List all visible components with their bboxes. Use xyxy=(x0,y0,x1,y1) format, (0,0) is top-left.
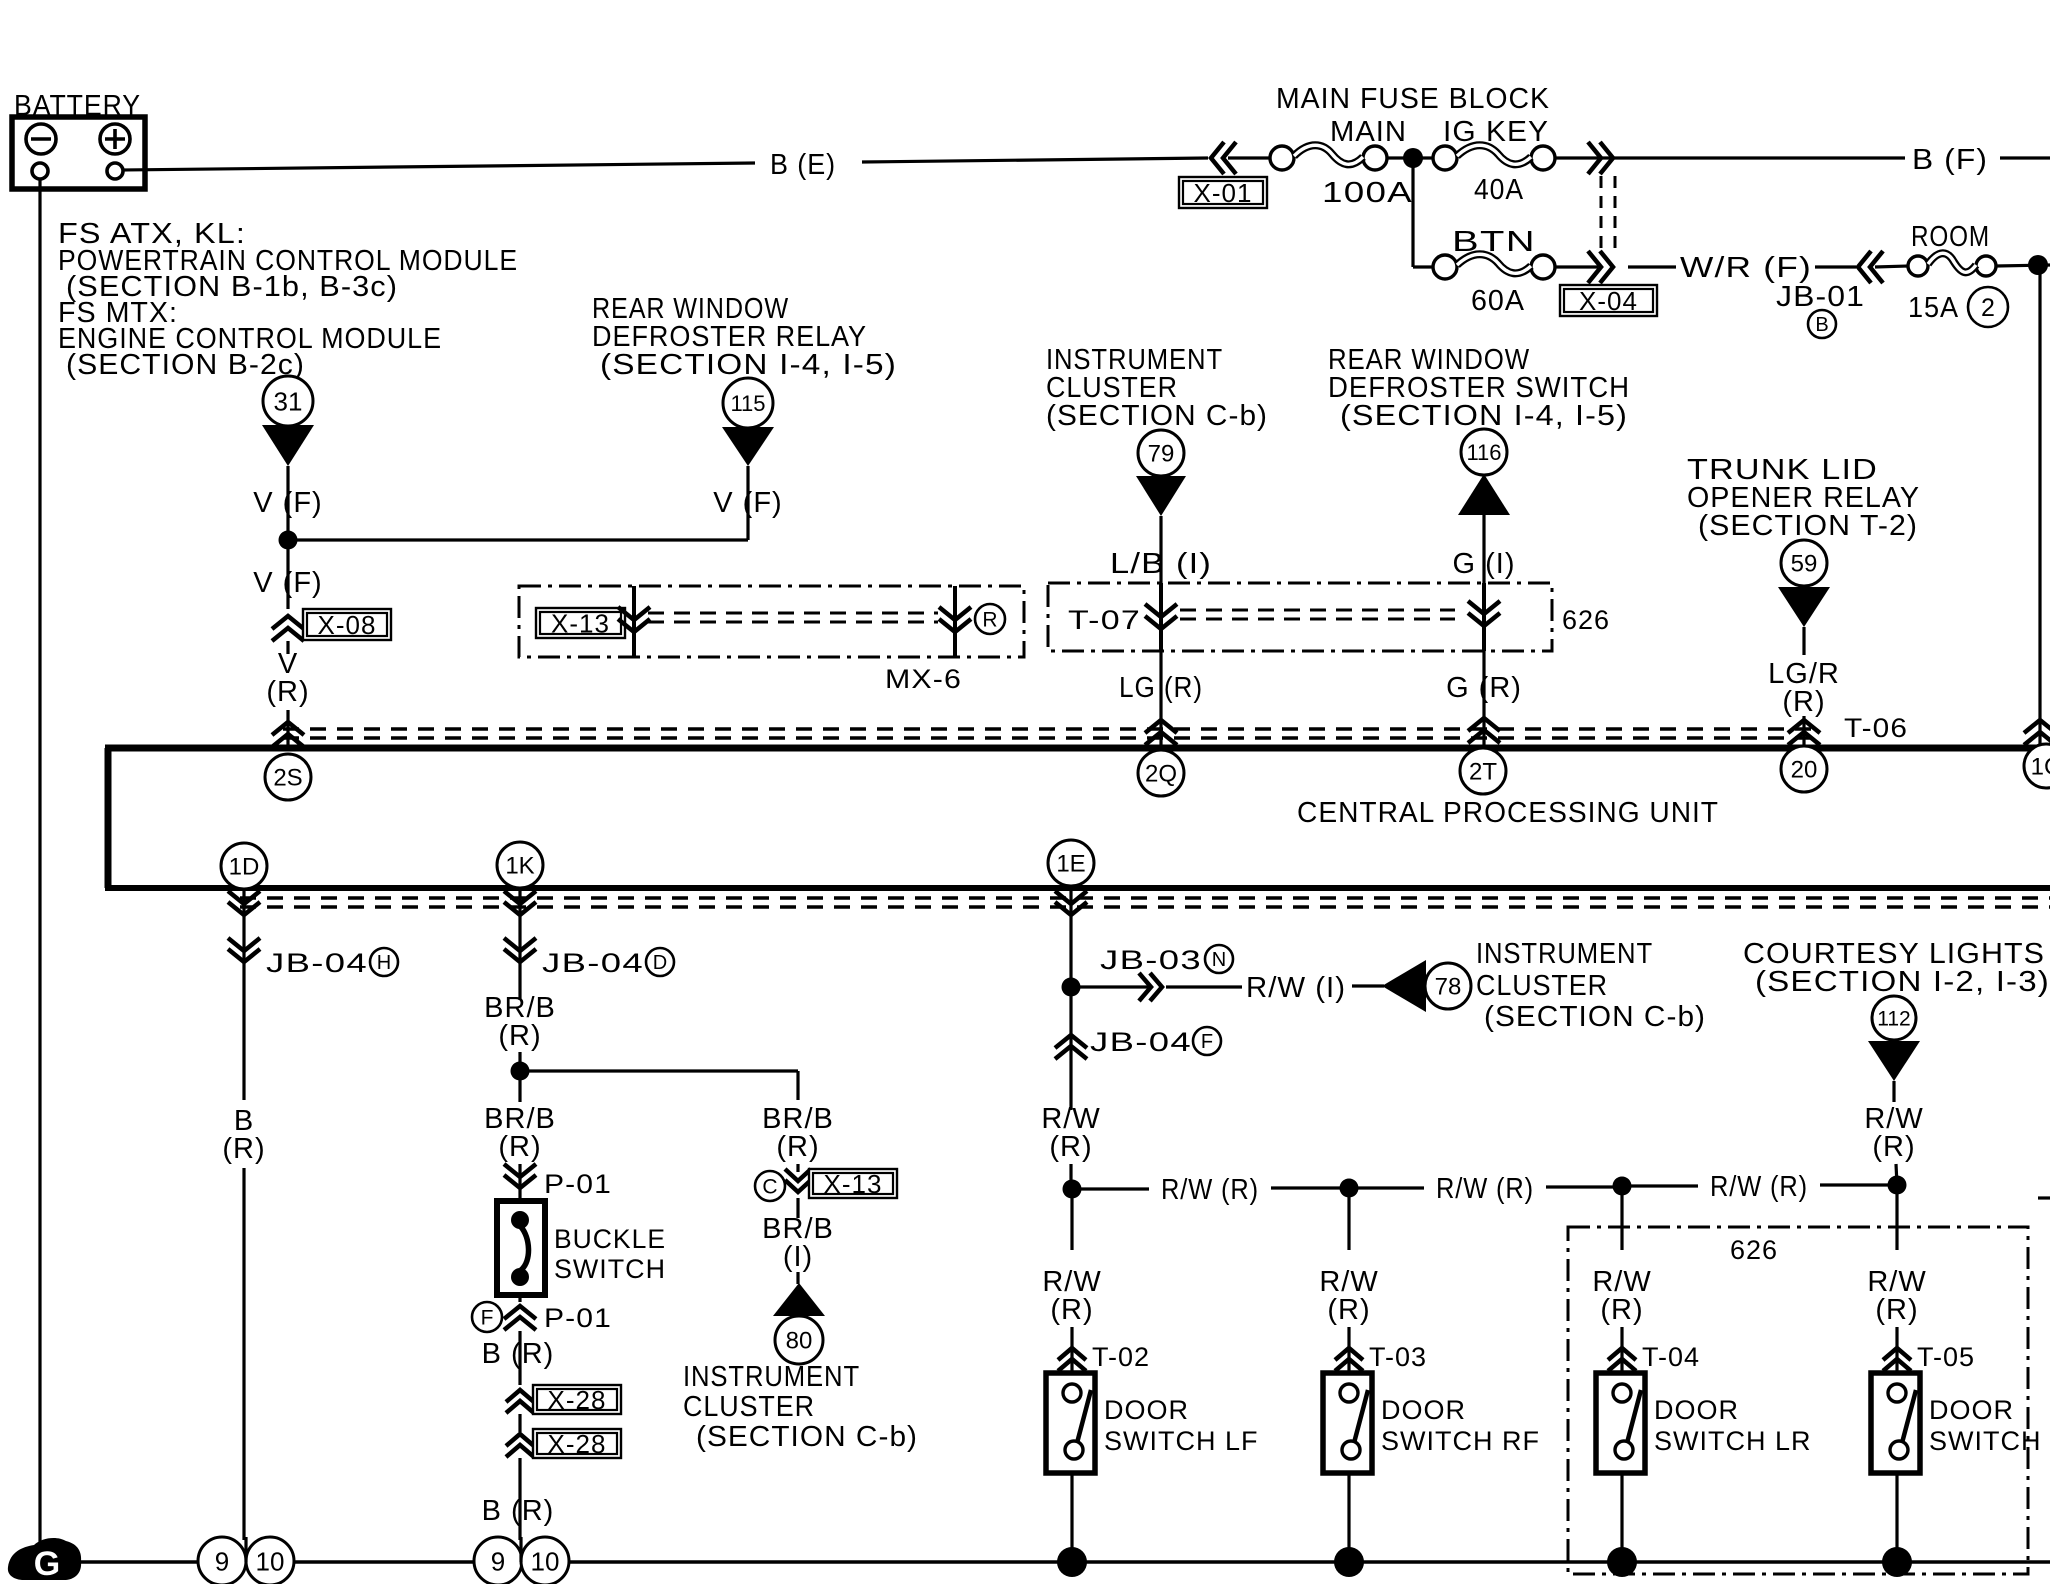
svg-text:MX-6: MX-6 xyxy=(885,664,962,694)
wire 116 down xyxy=(1482,515,1485,583)
connector chevron T-03 xyxy=(1335,1348,1363,1371)
connector chevron below box 1K xyxy=(504,891,536,915)
wire X-01 to MAIN fuse xyxy=(1228,156,1270,159)
wire RW seg3 xyxy=(1349,1186,1424,1189)
wire B(E) label to X-01 xyxy=(862,158,1208,162)
svg-text:BTN: BTN xyxy=(1452,226,1536,258)
connector X-01 chevron xyxy=(1211,142,1236,174)
svg-text:L/B (I): L/B (I) xyxy=(1110,548,1212,580)
svg-text:CLUSTER: CLUSTER xyxy=(683,1391,815,1423)
wire B(F) to edge xyxy=(2000,156,2050,159)
svg-text:INSTRUMENT: INSTRUMENT xyxy=(1476,938,1653,970)
connector X-08 chevron xyxy=(272,616,304,641)
connector chevron P-01 lower xyxy=(504,1306,536,1330)
svg-text:9: 9 xyxy=(491,1546,505,1576)
wire T-03 top xyxy=(1347,1197,1350,1250)
svg-text:(SECTION I-4, I-5): (SECTION I-4, I-5) xyxy=(600,349,897,381)
switch T-02 body xyxy=(1046,1373,1095,1473)
svg-text:10: 10 xyxy=(256,1546,285,1576)
connector X-13 lower box xyxy=(809,1169,897,1198)
switch T-05 bottom pin xyxy=(1890,1441,1908,1459)
connector 1C xyxy=(2024,744,2050,788)
connector chevron above bus 2S xyxy=(272,722,304,747)
wire IG KEY to B(F) xyxy=(1555,156,1905,159)
connector letter N xyxy=(1205,945,1233,973)
wire battery to ground xyxy=(38,179,41,1558)
connector chevron X-28 b xyxy=(506,1434,534,1457)
svg-text:P-01: P-01 xyxy=(544,1169,612,1199)
svg-text:B (R): B (R) xyxy=(482,1338,555,1370)
switch T-05 top pin xyxy=(1888,1384,1906,1402)
wire T-07 left through box xyxy=(1159,583,1163,651)
svg-text:80: 80 xyxy=(786,1328,813,1355)
connector JB-01 chevron xyxy=(1858,251,1883,283)
connector letter F 1E xyxy=(1193,1027,1221,1055)
connector letter R xyxy=(975,604,1005,634)
connector chevron X-13 lower xyxy=(785,1169,811,1192)
svg-text:2T: 2T xyxy=(1469,759,1497,786)
junction node RW 2 xyxy=(1340,1179,1359,1198)
svg-text:R/W (I): R/W (I) xyxy=(1246,972,1346,1004)
wire 59 down xyxy=(1802,627,1805,655)
wire T-02 mid xyxy=(1070,1327,1073,1373)
switch S1 blade xyxy=(521,1227,529,1270)
svg-text:LG (R): LG (R) xyxy=(1119,672,1203,704)
svg-text:1E: 1E xyxy=(1056,851,1085,878)
svg-text:DOOR: DOOR xyxy=(1654,1395,1739,1425)
arrow 79 triangle xyxy=(1136,476,1186,516)
junction node RW 1 xyxy=(1063,1180,1082,1199)
svg-text:T-02: T-02 xyxy=(1092,1342,1150,1372)
arrow 78 triangle left xyxy=(1382,960,1426,1012)
svg-text:JB-01: JB-01 xyxy=(1776,281,1865,313)
svg-text:2: 2 xyxy=(1981,294,1995,322)
wire X-13 col xyxy=(796,1164,799,1172)
wire X-08 down xyxy=(286,641,289,654)
wire T-05 top xyxy=(1895,1194,1898,1250)
box 626 dash-dot bottom xyxy=(1568,1227,2028,1574)
junction node ground T-05 xyxy=(1882,1547,1912,1577)
svg-text:9: 9 xyxy=(215,1546,229,1576)
wire 1D to ground line xyxy=(244,1537,247,1562)
svg-text:15A: 15A xyxy=(1908,292,1959,324)
connector JB-01 letter B xyxy=(1808,310,1836,338)
svg-text:(R): (R) xyxy=(1327,1294,1370,1326)
svg-text:2Q: 2Q xyxy=(1145,761,1177,788)
ground connector 9 mid xyxy=(474,1537,522,1584)
fuse MAIN 100A xyxy=(1270,146,1294,170)
wire 1K to P-01 xyxy=(518,1164,521,1201)
svg-text:60A: 60A xyxy=(1471,285,1525,317)
svg-text:X-13: X-13 xyxy=(824,1169,883,1199)
svg-text:V (F): V (F) xyxy=(713,487,782,519)
wire RW seg1 xyxy=(1072,1187,1149,1190)
svg-text:T-07: T-07 xyxy=(1068,605,1141,635)
wire to CPU bus xyxy=(286,710,289,748)
svg-text:MAIN FUSE BLOCK: MAIN FUSE BLOCK xyxy=(1276,83,1550,115)
connector 2T xyxy=(1460,748,1506,794)
svg-text:T-05: T-05 xyxy=(1917,1342,1975,1372)
junction node xyxy=(1403,148,1423,168)
svg-text:CLUSTER: CLUSTER xyxy=(1476,970,1608,1002)
svg-text:(SECTION T-2): (SECTION T-2) xyxy=(1698,510,1918,542)
svg-text:SWITCH: SWITCH xyxy=(554,1254,666,1284)
connector X-04 box xyxy=(1560,285,1657,316)
fuse BTN 60A xyxy=(1433,255,1457,279)
svg-text:B (R): B (R) xyxy=(482,1495,555,1527)
CPU bus top xyxy=(105,745,2050,752)
wire T-04 top xyxy=(1620,1195,1623,1250)
switch T-03 top pin xyxy=(1340,1384,1358,1402)
connector chevron below box 1D xyxy=(228,891,260,915)
switch S1 BUCKLE body xyxy=(497,1201,545,1295)
svg-text:MAIN: MAIN xyxy=(1330,116,1407,148)
svg-text:112: 112 xyxy=(1877,1008,1910,1031)
connector chevron right edge xyxy=(2024,720,2050,745)
ground wire xyxy=(60,1560,2050,1564)
svg-text:1K: 1K xyxy=(505,853,534,880)
wire T-05 mid xyxy=(1895,1327,1898,1373)
svg-text:DOOR: DOOR xyxy=(1381,1395,1466,1425)
wire G down to bus xyxy=(1482,651,1485,748)
svg-text:JB-04: JB-04 xyxy=(542,948,644,978)
arrow 59 triangle xyxy=(1778,587,1830,627)
connector chevron MX-6 right xyxy=(939,607,971,632)
svg-text:JB-03: JB-03 xyxy=(1100,945,1202,975)
connector X-13 box xyxy=(536,608,625,638)
svg-text:V (F): V (F) xyxy=(253,487,322,519)
wire trunk to bus xyxy=(1802,716,1805,748)
svg-text:(R): (R) xyxy=(266,676,309,708)
svg-text:X-28: X-28 xyxy=(548,1385,607,1415)
svg-text:(SECTION C-b): (SECTION C-b) xyxy=(696,1421,918,1453)
wire JB-03 right 2 xyxy=(1166,985,1242,988)
connector 112 xyxy=(1872,996,1916,1040)
connector 79 xyxy=(1138,430,1184,476)
svg-text:INSTRUMENT: INSTRUMENT xyxy=(683,1361,860,1393)
svg-text:1D: 1D xyxy=(229,854,260,881)
wire to 80 triangle xyxy=(796,1272,799,1284)
fuse ROOM 15A xyxy=(1908,256,1928,276)
wire 1K to ground line xyxy=(519,1537,522,1562)
wire 1E to RW junction xyxy=(1069,1164,1072,1190)
wire T-04 to ground xyxy=(1620,1473,1623,1562)
connector X-04 chevron xyxy=(1588,251,1613,283)
connector 1E xyxy=(1048,840,1094,886)
wire MAIN fuse to junction xyxy=(1387,156,1445,159)
svg-text:(R): (R) xyxy=(1875,1294,1918,1326)
svg-text:(R): (R) xyxy=(1050,1294,1093,1326)
svg-text:115: 115 xyxy=(730,391,765,416)
wire right edge down xyxy=(2038,265,2041,745)
arrow 31 triangle xyxy=(262,425,314,466)
svg-text:31: 31 xyxy=(274,386,303,416)
svg-text:JB-04: JB-04 xyxy=(266,948,368,978)
svg-text:H: H xyxy=(377,952,391,974)
switch T-05 body xyxy=(1871,1373,1920,1473)
switch T-04 bottom pin xyxy=(1615,1441,1633,1459)
wire T-02 to ground xyxy=(1070,1473,1073,1562)
wire X-28 to ground xyxy=(518,1458,521,1540)
svg-text:20: 20 xyxy=(1791,757,1818,784)
connector chevron JB-04 H xyxy=(228,938,260,962)
svg-text:116: 116 xyxy=(1466,440,1501,465)
wire 1K down xyxy=(518,888,521,1000)
wire T-04 mid xyxy=(1620,1327,1623,1373)
connector letter F buckle xyxy=(472,1302,502,1332)
switch T-02 blade xyxy=(1077,1390,1091,1443)
wire RW seg5 xyxy=(1622,1184,1698,1187)
svg-text:T-04: T-04 xyxy=(1642,1342,1700,1372)
wire 31 down xyxy=(286,466,289,538)
svg-text:DOOR: DOOR xyxy=(1104,1395,1189,1425)
svg-text:(R): (R) xyxy=(776,1131,819,1163)
switch S1 top contact xyxy=(511,1211,529,1229)
connector chevron T-07 right xyxy=(1468,601,1500,626)
wire T-05 to ground xyxy=(1895,1473,1898,1562)
connector chevron below box 1E xyxy=(1055,891,1087,915)
svg-text:JB-04: JB-04 xyxy=(1090,1027,1192,1057)
svg-text:(SECTION C-b): (SECTION C-b) xyxy=(1046,400,1268,432)
svg-text:SWITCH RF: SWITCH RF xyxy=(1381,1426,1540,1456)
ground connector 10 mid xyxy=(521,1537,569,1584)
wire 31 junction down xyxy=(286,540,289,609)
svg-text:SWITCH RR: SWITCH RR xyxy=(1929,1426,2050,1456)
wire RW seg2 xyxy=(1271,1186,1349,1189)
wire MX-6 left stub xyxy=(632,586,636,657)
connector chevron JB-04 D xyxy=(504,938,536,962)
connector letter C xyxy=(755,1171,785,1201)
svg-text:W/R (F): W/R (F) xyxy=(1680,252,1812,284)
wire BTN to X-04 xyxy=(1555,265,1598,268)
svg-text:(R): (R) xyxy=(1872,1131,1915,1163)
svg-text:X-13: X-13 xyxy=(551,608,610,638)
dashed harness in MX-6 box xyxy=(648,612,938,615)
connector chevron above bus 2Q xyxy=(1145,720,1177,745)
switch T-02 top pin xyxy=(1063,1384,1081,1402)
svg-text:(I): (I) xyxy=(783,1241,813,1273)
ground connector 9 left xyxy=(198,1537,246,1584)
junction node BR/B xyxy=(511,1062,530,1081)
svg-text:ROOM: ROOM xyxy=(1911,221,1990,253)
wire RW seg4 xyxy=(1546,1185,1622,1188)
svg-text:626: 626 xyxy=(1730,1235,1778,1265)
junction node ground T-04 xyxy=(1607,1547,1637,1577)
wire between X-28 xyxy=(518,1414,521,1432)
connector 1D xyxy=(221,843,267,889)
svg-text:X-01: X-01 xyxy=(1194,178,1253,208)
arrow 80 triangle up xyxy=(773,1283,825,1316)
junction node RW 3 xyxy=(1613,1177,1632,1196)
svg-text:R/W (R): R/W (R) xyxy=(1161,1174,1259,1206)
svg-text:(SECTION C-b): (SECTION C-b) xyxy=(1484,1001,1706,1033)
svg-text:B: B xyxy=(1815,314,1828,336)
wire LG down to bus xyxy=(1159,651,1162,748)
wire X-04 to label xyxy=(1628,265,1676,268)
wire JB-01 to ROOM fuse xyxy=(1875,266,1908,267)
connector chevron MX-6 left xyxy=(618,607,650,632)
connector X-28 box b xyxy=(533,1429,621,1458)
svg-text:G (I): G (I) xyxy=(1453,548,1516,580)
connector X-01 box xyxy=(1179,177,1267,208)
svg-text:(SECTION I-4, I-5): (SECTION I-4, I-5) xyxy=(1340,400,1628,432)
switch T-05 blade xyxy=(1902,1390,1916,1443)
svg-text:626: 626 xyxy=(1562,605,1610,635)
svg-text:P-01: P-01 xyxy=(544,1303,612,1333)
svg-text:79: 79 xyxy=(1148,441,1175,468)
dashed pair above bus xyxy=(283,727,1812,730)
svg-text:(R): (R) xyxy=(1600,1294,1643,1326)
svg-text:X-28: X-28 xyxy=(548,1429,607,1459)
wire JB-03 right xyxy=(1071,985,1148,988)
connector chevron T-05 xyxy=(1883,1348,1911,1371)
connector X-28 box a xyxy=(533,1385,621,1414)
wire 1K to junction xyxy=(518,1052,521,1102)
connector chevron T-07 left xyxy=(1145,604,1177,629)
wire 1E down xyxy=(1069,888,1072,1110)
connector chevron T-06 xyxy=(1788,720,1820,745)
svg-text:R/W (R): R/W (R) xyxy=(1710,1171,1808,1203)
svg-text:B (E): B (E) xyxy=(770,149,836,181)
svg-text:C: C xyxy=(762,1176,777,1199)
svg-text:(R): (R) xyxy=(1049,1131,1092,1163)
svg-text:10: 10 xyxy=(531,1546,560,1576)
connector 116 xyxy=(1461,429,1507,475)
connector chevron T-02 xyxy=(1058,1348,1086,1371)
svg-text:X-04: X-04 xyxy=(1579,286,1638,316)
svg-text:100A: 100A xyxy=(1322,177,1413,209)
svg-text:G: G xyxy=(34,1545,60,1583)
svg-text:CENTRAL PROCESSING UNIT: CENTRAL PROCESSING UNIT xyxy=(1297,797,1719,829)
wire T-02 top xyxy=(1070,1198,1073,1250)
arrow 116 triangle up xyxy=(1458,474,1510,515)
ground symbol G xyxy=(8,1538,81,1580)
switch T-03 bottom pin xyxy=(1342,1441,1360,1459)
svg-text:B (F): B (F) xyxy=(1912,144,1988,176)
dashed connector link xyxy=(1600,176,1603,254)
wire 1D down 2 xyxy=(242,1168,245,1540)
switch S1 bottom contact xyxy=(511,1268,529,1286)
svg-text:SWITCH LF: SWITCH LF xyxy=(1104,1426,1259,1456)
wire 1D down xyxy=(242,888,245,1100)
wire MX-6 right stub xyxy=(953,586,957,657)
svg-text:40A: 40A xyxy=(1474,174,1524,206)
CPU box bottom edge xyxy=(105,885,2050,891)
svg-text:1C: 1C xyxy=(2031,754,2050,781)
svg-text:R: R xyxy=(982,609,997,632)
connector letter D xyxy=(646,948,674,976)
connector chevron T-04 xyxy=(1608,1348,1636,1371)
wire 79 down xyxy=(1159,516,1162,583)
ground connector 10 left xyxy=(246,1537,294,1584)
connector chevron P-01 xyxy=(504,1164,536,1188)
connector 2Q xyxy=(1138,750,1184,796)
connector chevron JB-04 F xyxy=(1055,1035,1087,1059)
junction node RW 4 xyxy=(1888,1176,1907,1195)
svg-text:F: F xyxy=(1201,1031,1213,1053)
connector 80 xyxy=(775,1316,823,1364)
svg-text:SWITCH LR: SWITCH LR xyxy=(1654,1426,1812,1456)
svg-text:G (R): G (R) xyxy=(1446,672,1522,704)
svg-text:(R): (R) xyxy=(1782,686,1825,718)
junction node V xyxy=(279,531,298,550)
svg-text:(SECTION I-2, I-3): (SECTION I-2, I-3) xyxy=(1755,966,2050,998)
battery B1 xyxy=(12,117,145,189)
junction node right xyxy=(2028,255,2048,275)
box 626 dash-dot top xyxy=(1048,583,1552,651)
svg-text:X-08: X-08 xyxy=(318,610,377,640)
svg-text:(R): (R) xyxy=(222,1133,265,1165)
wire branch to X-13 column xyxy=(520,1069,798,1072)
connector chevron above bus 2T xyxy=(1468,718,1500,743)
connector 78 xyxy=(1425,963,1471,1009)
svg-text:(SECTION B-2c): (SECTION B-2c) xyxy=(66,349,305,381)
svg-text:T-06: T-06 xyxy=(1844,713,1908,743)
svg-text:IG KEY: IG KEY xyxy=(1443,116,1549,148)
wire buckle to B(R) xyxy=(518,1295,521,1302)
connector 115 xyxy=(723,378,773,428)
svg-text:R/W (R): R/W (R) xyxy=(1436,1173,1534,1205)
svg-text:F: F xyxy=(481,1307,494,1330)
svg-text:78: 78 xyxy=(1435,974,1462,1001)
junction node ground T-02 xyxy=(1057,1547,1087,1577)
svg-text:DOOR: DOOR xyxy=(1929,1395,2014,1425)
fuse IG KEY 40A xyxy=(1433,146,1457,170)
connector 59 xyxy=(1781,540,1827,586)
arrow 112 triangle xyxy=(1868,1041,1920,1081)
svg-text:BUCKLE: BUCKLE xyxy=(554,1224,666,1254)
connector chevron right (to X-04) xyxy=(1588,142,1613,174)
dashed pair below CPU box xyxy=(240,896,2050,899)
connector chevron JB-03 xyxy=(1139,973,1162,1001)
wire 112 down xyxy=(1892,1081,1895,1102)
connector 31 xyxy=(263,376,313,426)
wire B(E) battery to label xyxy=(123,163,755,170)
box MX-6 dash-dot xyxy=(519,586,1024,657)
svg-text:N: N xyxy=(1212,949,1226,971)
connector 20 xyxy=(1781,746,1827,792)
svg-text:2S: 2S xyxy=(273,765,302,792)
wire RW seg6 xyxy=(1820,1183,1897,1186)
wire junction down to BTN xyxy=(1411,158,1414,267)
circled 2 xyxy=(1968,287,2008,327)
switch T-04 top pin xyxy=(1613,1384,1631,1402)
svg-text:59: 59 xyxy=(1791,551,1818,578)
connector X-08 box xyxy=(303,609,391,640)
connector letter H xyxy=(370,948,398,976)
wire T-03 to ground xyxy=(1347,1473,1350,1562)
connector 2S xyxy=(265,754,311,800)
CPU box left edge xyxy=(105,748,112,888)
dashed harness in 626 box xyxy=(1180,609,1455,612)
wire W/R to JB-01 xyxy=(1815,265,1856,268)
wire ROOM to corner junction xyxy=(1996,265,2050,266)
switch T-02 bottom pin xyxy=(1065,1441,1083,1459)
wire R/W(I) to triangle xyxy=(1352,984,1384,987)
wire T-03 mid xyxy=(1347,1327,1350,1373)
svg-text:T-03: T-03 xyxy=(1369,1342,1427,1372)
connector chevron X-28 a xyxy=(506,1390,534,1413)
svg-text:(R): (R) xyxy=(498,1020,541,1052)
switch T-03 body xyxy=(1323,1373,1372,1473)
switch T-03 blade xyxy=(1354,1390,1368,1443)
wire RW edge stub xyxy=(2038,1196,2050,1199)
switch T-04 body xyxy=(1596,1373,1645,1473)
wire T-07 right through box xyxy=(1482,583,1486,651)
svg-text:D: D xyxy=(653,952,667,974)
arrow 115 triangle xyxy=(722,427,774,466)
svg-text:V (F): V (F) xyxy=(253,567,322,599)
